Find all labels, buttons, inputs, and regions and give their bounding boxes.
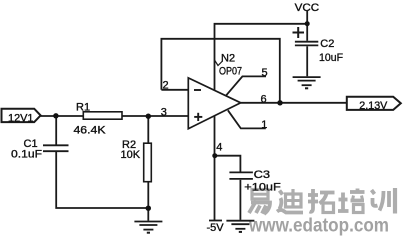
svg-text:VCC: VCC	[295, 2, 320, 14]
svg-text:2.13V: 2.13V	[359, 100, 388, 112]
svg-text:R1: R1	[76, 102, 90, 114]
svg-text:-5V: -5V	[207, 222, 225, 234]
svg-text:OP07: OP07	[219, 66, 242, 78]
svg-text:C3: C3	[254, 169, 271, 181]
svg-text:1: 1	[261, 119, 267, 131]
svg-text:3: 3	[161, 107, 167, 119]
svg-text:2: 2	[163, 80, 169, 92]
svg-text:+10uF: +10uF	[244, 181, 281, 193]
svg-text:46.4K: 46.4K	[74, 125, 107, 137]
svg-text:4: 4	[216, 141, 222, 153]
svg-text:N2: N2	[221, 53, 235, 65]
svg-text:0.1uF: 0.1uF	[11, 149, 42, 161]
svg-text:12V1: 12V1	[8, 112, 34, 124]
svg-text:10uF: 10uF	[319, 52, 343, 64]
svg-text:6: 6	[261, 93, 267, 105]
svg-text:5: 5	[262, 67, 268, 79]
svg-text:10K: 10K	[121, 149, 141, 161]
svg-text:C2: C2	[320, 38, 334, 50]
svg-text:www.edatop.com: www.edatop.com	[248, 216, 389, 237]
